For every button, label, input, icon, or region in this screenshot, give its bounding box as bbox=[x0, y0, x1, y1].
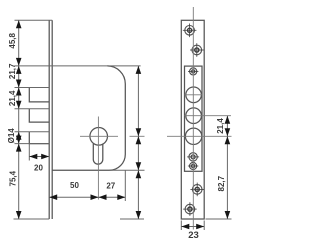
svg-text:50: 50 bbox=[70, 181, 79, 190]
svg-text:21,4: 21,4 bbox=[8, 90, 17, 106]
svg-text:20: 20 bbox=[34, 163, 43, 172]
svg-text:27: 27 bbox=[106, 182, 115, 191]
svg-text:Ø14: Ø14 bbox=[7, 128, 16, 144]
svg-text:75,4: 75,4 bbox=[9, 170, 18, 186]
svg-text:21,7: 21,7 bbox=[8, 63, 17, 79]
svg-text:23: 23 bbox=[188, 230, 199, 241]
svg-text:45,8: 45,8 bbox=[8, 32, 17, 48]
svg-text:21,4: 21,4 bbox=[216, 118, 225, 134]
svg-text:82,7: 82,7 bbox=[217, 175, 226, 191]
